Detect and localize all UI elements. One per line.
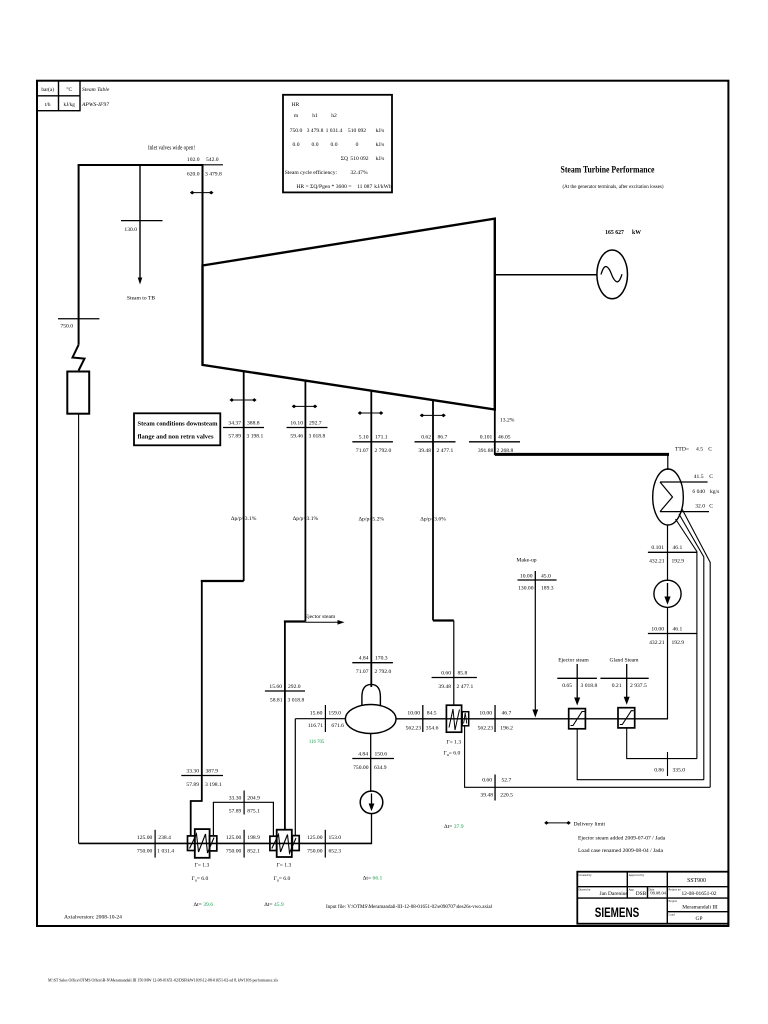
delivery marker ext3 <box>358 411 384 415</box>
svg-text:ΣQ: ΣQ <box>341 156 348 162</box>
wire: hotwell down to pump <box>667 525 669 581</box>
delivery marker ext2 <box>292 405 318 409</box>
boiler box <box>67 372 89 414</box>
svg-text:2 792.0: 2 792.0 <box>375 669 392 675</box>
svg-text:750.00: 750.00 <box>137 848 153 854</box>
wire: ext1 down to HP1 <box>201 581 203 802</box>
svg-text:Δp/p=3.6%: Δp/p=3.6% <box>420 517 446 523</box>
boiler break squiggle <box>73 345 85 371</box>
svg-text:0.0: 0.0 <box>331 142 338 148</box>
svg-text:Jan Darenius: Jan Darenius <box>600 891 628 897</box>
node: HP1 drain labels <box>243 791 245 815</box>
svg-text:Steam to TB: Steam to TB <box>127 296 155 302</box>
node: deaerator steam labels on ext2 drop <box>265 690 305 692</box>
svg-text:APWS-IF97: APWS-IF97 <box>81 102 109 108</box>
svg-text:750.00: 750.00 <box>307 848 323 854</box>
svg-text:Inlet valves wide open!: Inlet valves wide open! <box>148 146 195 152</box>
svg-text:kJ/kWh: kJ/kWh <box>374 184 392 190</box>
page border frame <box>37 81 728 926</box>
svg-text:750.0: 750.0 <box>290 128 303 134</box>
svg-text:0.60: 0.60 <box>482 777 492 783</box>
svg-text:C: C <box>709 504 713 510</box>
svg-text:542.0: 542.0 <box>206 157 219 163</box>
svg-text:3 018.8: 3 018.8 <box>581 683 598 689</box>
svg-text:130.0: 130.0 <box>124 227 137 233</box>
svg-text:671.6: 671.6 <box>331 723 344 729</box>
deaerator dome <box>362 684 381 705</box>
delivery marker ext1 <box>230 398 257 402</box>
svg-text:kJ/s: kJ/s <box>376 142 385 148</box>
svg-text:Steam cycle efficiency:: Steam cycle efficiency: <box>285 169 338 176</box>
svg-text:Δt= 39.6: Δt= 39.6 <box>194 902 214 908</box>
svg-text:Axialversion: 2008-10-24: Axialversion: 2008-10-24 <box>64 915 122 921</box>
gland steam condenser E2 <box>618 708 635 728</box>
svg-text:750.0: 750.0 <box>60 324 73 330</box>
svg-text:562.23: 562.23 <box>406 726 422 732</box>
svg-text:125.00: 125.00 <box>226 835 242 841</box>
svg-text:189.3: 189.3 <box>541 586 554 592</box>
svg-text:Created by: Created by <box>579 873 593 877</box>
svg-text:39.48: 39.48 <box>480 793 493 799</box>
svg-text:192.9: 192.9 <box>672 559 685 565</box>
svg-text:46.1: 46.1 <box>673 626 683 632</box>
svg-text:m: m <box>294 113 299 119</box>
node: deaerator inlet labels <box>352 662 393 664</box>
node: ext2 flange labels <box>287 427 328 429</box>
svg-text:3 198.1: 3 198.1 <box>247 434 264 440</box>
svg-text:159.0: 159.0 <box>328 711 341 717</box>
svg-text:432.21: 432.21 <box>649 559 665 565</box>
svg-text:kJ/kg: kJ/kg <box>63 102 75 108</box>
LP heater H4 <box>446 705 461 732</box>
svg-text:4.5: 4.5 <box>696 447 703 453</box>
svg-text:510 092: 510 092 <box>348 128 366 134</box>
svg-text:2 937.5: 2 937.5 <box>630 683 647 689</box>
wire: feedwater line <box>79 842 373 844</box>
wire: exhaust duct to condenser (thick) <box>495 453 669 456</box>
wire: extraction 2 from turbine <box>304 381 306 622</box>
svg-text:kW: kW <box>632 230 641 236</box>
svg-text:1 031.4: 1 031.4 <box>326 128 343 134</box>
svg-text:3 479.8: 3 479.8 <box>205 172 222 178</box>
node: LP heater steam labels <box>432 677 477 679</box>
condenser cooling water tubes <box>660 481 708 483</box>
svg-text:App.: App. <box>629 888 635 892</box>
svg-text:192.9: 192.9 <box>672 640 685 646</box>
svg-text:852.1: 852.1 <box>247 848 260 854</box>
svg-text:84.5: 84.5 <box>427 710 437 716</box>
delivery limit marker on main steam <box>190 191 214 195</box>
svg-text:238.4: 238.4 <box>158 835 171 841</box>
svg-text:59.46: 59.46 <box>290 434 303 440</box>
svg-text:13.2%: 13.2% <box>500 418 515 424</box>
ejector condenser E1 <box>569 709 586 729</box>
svg-text:3 479.8: 3 479.8 <box>307 128 324 134</box>
svg-text:Load: Load <box>669 912 676 916</box>
svg-text:Gland Steam: Gland Steam <box>609 658 639 664</box>
svg-text:DSB: DSB <box>636 891 647 897</box>
condensate return risers to condenser <box>676 519 697 759</box>
svg-text:Make-up: Make-up <box>516 558 536 564</box>
svg-text:3 018.8: 3 018.8 <box>309 434 326 440</box>
title block <box>577 872 728 924</box>
svg-text:196.2: 196.2 <box>500 726 513 732</box>
wire: generator shaft <box>495 274 597 276</box>
svg-text:165 627: 165 627 <box>605 230 624 236</box>
HP heater H1 <box>188 836 195 851</box>
svg-text:204.9: 204.9 <box>247 795 260 801</box>
svg-text:125.00: 125.00 <box>137 835 153 841</box>
svg-text:Ejector steam added 2009-07-07: Ejector steam added 2009-07-07 / Jada <box>578 836 666 842</box>
svg-text:15.60: 15.60 <box>269 684 282 690</box>
wire: pump discharge down <box>667 607 669 719</box>
turbine body <box>203 219 495 410</box>
svg-text:198.9: 198.9 <box>247 835 260 841</box>
svg-text:C: C <box>709 474 713 480</box>
svg-text:Load case renamed 2009-08-04 /: Load case renamed 2009-08-04 / Jada <box>578 848 663 854</box>
node: feedwater labels before HP2 <box>324 830 326 858</box>
svg-text:41.5: 41.5 <box>694 474 704 480</box>
wire: main condensate line <box>396 718 668 720</box>
svg-text:0.0: 0.0 <box>293 142 300 148</box>
svg-text:11 087: 11 087 <box>357 184 372 190</box>
svg-text:Project no: Project no <box>669 888 682 892</box>
svg-text:flange and non retrn valves: flange and non retrn valves <box>138 435 215 441</box>
svg-text:M:\ST Sales Office\OTMS Offers: M:\ST Sales Office\OTMS Offers\B-N\Meram… <box>48 978 278 984</box>
wire: ejector condenser drain <box>577 729 704 780</box>
svg-text:388.8: 388.8 <box>247 420 260 426</box>
svg-text:kg/s: kg/s <box>710 489 719 495</box>
svg-text:Δp/p=5.2%: Δp/p=5.2% <box>359 517 385 523</box>
svg-text:335.0: 335.0 <box>673 768 686 774</box>
svg-text:71.07: 71.07 <box>356 669 369 675</box>
legend: delivery limit <box>544 821 571 825</box>
svg-text:71.07: 71.07 <box>356 448 369 454</box>
wire: ejector steam takeoff arrow <box>305 621 340 623</box>
node: ext1 flange labels <box>223 427 264 429</box>
svg-text:Delivery limit: Delivery limit <box>574 821 606 827</box>
wire: LP heater drain <box>465 726 711 788</box>
svg-text:SST900: SST900 <box>687 878 706 884</box>
svg-text:2 792.0: 2 792.0 <box>375 448 392 454</box>
svg-text:220.5: 220.5 <box>500 793 513 799</box>
svg-text:10.00: 10.00 <box>651 626 664 632</box>
svg-text:h1: h1 <box>312 113 318 119</box>
svg-text:125.00: 125.00 <box>307 835 323 841</box>
svg-text:1 031.4: 1 031.4 <box>157 848 174 854</box>
svg-text:10.00: 10.00 <box>407 710 420 716</box>
svg-text:57.89: 57.89 <box>229 808 242 814</box>
wire: ext2 jog <box>284 620 306 622</box>
feedwater pump P2 <box>360 791 383 814</box>
svg-text:102.0: 102.0 <box>187 157 200 163</box>
wire: ext4 jog <box>433 619 454 621</box>
condenser <box>653 469 684 525</box>
svg-text:HR = ΣQ/Pgen * 3600 =: HR = ΣQ/Pgen * 3600 = <box>296 184 351 190</box>
svg-text:Δt= 66.1: Δt= 66.1 <box>363 876 383 882</box>
svg-text:10.00: 10.00 <box>479 710 492 716</box>
svg-text:Γu= 6.0: Γu= 6.0 <box>274 876 291 883</box>
wire: extraction 4 from turbine <box>432 400 434 620</box>
svg-text:45.0: 45.0 <box>541 573 551 579</box>
svg-text:kJ/s: kJ/s <box>376 128 385 134</box>
svg-text:34.37: 34.37 <box>228 420 241 426</box>
svg-text:0.65: 0.65 <box>562 683 572 689</box>
wire: ext1 jog <box>201 580 244 582</box>
note box: steam conditions <box>134 413 220 445</box>
wire: deaerator outlet down to feed pump <box>370 734 372 793</box>
svg-text:153.0: 153.0 <box>329 835 342 841</box>
svg-text:Meramandali III: Meramandali III <box>682 905 718 911</box>
node: condensate labels after pump <box>648 633 697 635</box>
svg-text:292.0: 292.0 <box>288 684 301 690</box>
node: deaerator drain-inlet labels <box>324 705 326 732</box>
svg-text:0.62: 0.62 <box>421 435 431 441</box>
wire: HP drains into deaerator <box>295 718 346 720</box>
wire: HP1 drain to HP2 <box>213 802 273 836</box>
node: ext1 at heater labels <box>181 775 223 777</box>
svg-text:Δt= 37.9: Δt= 37.9 <box>444 824 464 830</box>
svg-text:Project: Project <box>669 899 678 903</box>
svg-text:634.9: 634.9 <box>374 765 387 771</box>
svg-text:TTD=: TTD= <box>675 447 689 453</box>
svg-text:Steam conditions downsteam: Steam conditions downsteam <box>138 422 218 428</box>
svg-text:10.00: 10.00 <box>520 573 533 579</box>
svg-text:3 198.1: 3 198.1 <box>205 782 222 788</box>
node: gland drain labels <box>667 752 669 776</box>
node: deaerator feed labels <box>422 705 424 732</box>
svg-text:387.9: 387.9 <box>206 768 219 774</box>
svg-text:32.0: 32.0 <box>695 504 705 510</box>
svg-text:Ejector steam: Ejector steam <box>305 614 336 620</box>
HR heat-rate table <box>283 95 392 193</box>
wire: HP2 drain riser to deaerator line <box>294 719 296 836</box>
svg-text:Δp/p=3.1%: Δp/p=3.1% <box>231 516 257 522</box>
svg-text:130.00: 130.00 <box>518 586 534 592</box>
svg-text:171.1: 171.1 <box>375 435 388 441</box>
deaerator vessel <box>345 705 396 734</box>
svg-text:C: C <box>708 447 712 453</box>
wire: main steam header horizontal <box>78 164 203 166</box>
svg-text:39.48: 39.48 <box>418 448 431 454</box>
wire: turbine exhaust down <box>494 410 496 456</box>
wire: feed pump discharge to feedwater line <box>371 813 373 843</box>
svg-text:875.1: 875.1 <box>247 808 260 814</box>
wire: extraction 1 from turbine <box>243 371 245 581</box>
svg-text:292.7: 292.7 <box>309 420 322 426</box>
svg-text:Steam Table: Steam Table <box>82 87 110 93</box>
node: deaerator outlet labels <box>352 758 394 760</box>
svg-text:Γ= 1.3: Γ= 1.3 <box>195 863 210 869</box>
units legend table <box>37 81 110 111</box>
svg-text:150.6: 150.6 <box>375 751 388 757</box>
svg-text:652.3: 652.3 <box>329 848 342 854</box>
svg-text:750.00: 750.00 <box>226 848 242 854</box>
node: LP heater outlet labels <box>494 705 496 732</box>
svg-text:170.3: 170.3 <box>375 656 388 662</box>
svg-text:0.21: 0.21 <box>612 683 622 689</box>
svg-text:0.60: 0.60 <box>441 670 451 676</box>
svg-text:GP: GP <box>696 916 703 922</box>
svg-text:2 477.1: 2 477.1 <box>437 448 454 454</box>
wire: ext4 down to LP heater <box>453 621 455 706</box>
svg-text:116 705: 116 705 <box>309 740 325 745</box>
svg-text:86.7: 86.7 <box>438 435 448 441</box>
svg-text:85.8: 85.8 <box>458 670 468 676</box>
node: ext4 flange labels <box>415 441 456 443</box>
svg-text:32.47%: 32.47% <box>350 170 368 176</box>
svg-text:Δp/p=3.1%: Δp/p=3.1% <box>293 516 319 522</box>
svg-text:39.48: 39.48 <box>438 684 451 690</box>
svg-text:SIEMENS: SIEMENS <box>595 905 640 920</box>
HP heater H2 <box>270 836 277 850</box>
wire: gland condenser drain <box>627 728 697 759</box>
svg-text:4.84: 4.84 <box>359 656 369 662</box>
svg-text:Δt= 45.9: Δt= 45.9 <box>264 902 284 908</box>
svg-text:2 477.1: 2 477.1 <box>457 684 474 690</box>
svg-text:510 092: 510 092 <box>350 156 368 162</box>
node: ext3 flange labels <box>352 441 393 443</box>
svg-text:(At the generator terminals, a: (At the generator terminals, after excit… <box>563 183 664 190</box>
svg-text:Steam Turbine Performance: Steam Turbine Performance <box>561 164 655 174</box>
svg-text:116.71: 116.71 <box>308 723 323 729</box>
svg-text:33.30: 33.30 <box>186 768 199 774</box>
wire: boiler downcomer (feedwater to boiler) <box>78 414 80 844</box>
node: LP drain labels <box>494 775 496 801</box>
svg-text:Input file: V:\OTMS\Meramandal: Input file: V:\OTMS\Meramandali-III-12-0… <box>326 905 493 910</box>
svg-text:5.10: 5.10 <box>359 435 369 441</box>
svg-text:t/h: t/h <box>45 102 51 108</box>
wire: steam to TB branch <box>139 165 141 280</box>
svg-text:6 040: 6 040 <box>692 489 705 495</box>
wire: boiler riser (main steam up) <box>78 165 80 345</box>
node: live steam label 750.0 <box>58 318 99 320</box>
svg-text:750.00: 750.00 <box>353 765 369 771</box>
svg-text:3 018.8: 3 018.8 <box>288 697 305 703</box>
svg-text:°C: °C <box>66 86 72 93</box>
generator G1 <box>597 250 628 299</box>
svg-text:0.101: 0.101 <box>480 435 493 441</box>
svg-text:HR: HR <box>292 102 300 108</box>
wire: ext2 down to HP2 <box>284 622 286 830</box>
svg-text:12-08-01651-02: 12-08-01651-02 <box>681 891 716 897</box>
svg-text:354.6: 354.6 <box>426 726 439 732</box>
wire: ext1 into HP1 nozzle <box>191 801 202 837</box>
svg-text:46.1: 46.1 <box>673 545 683 551</box>
svg-text:391.88: 391.88 <box>478 448 494 454</box>
svg-text:Γu= 6.0: Γu= 6.0 <box>192 876 209 883</box>
wire: extraction 3 from turbine to deaerator <box>370 391 372 687</box>
svg-text:Ejector steam: Ejector steam <box>558 658 589 664</box>
svg-text:16.10: 16.10 <box>290 420 303 426</box>
svg-text:Drawn by: Drawn by <box>579 888 591 892</box>
svg-text:0: 0 <box>356 142 359 148</box>
svg-text:57.89: 57.89 <box>186 782 199 788</box>
svg-text:Γ= 1.3: Γ= 1.3 <box>446 739 461 745</box>
svg-text:52.7: 52.7 <box>502 777 512 783</box>
svg-text:h2: h2 <box>331 113 337 119</box>
node: condensate labels before pump <box>648 551 697 553</box>
svg-text:0.86: 0.86 <box>654 768 664 774</box>
svg-text:bar(a): bar(a) <box>41 86 54 93</box>
wire: main steam down to turbine <box>202 164 204 266</box>
svg-text:33.30: 33.30 <box>229 795 242 801</box>
svg-text:0.0: 0.0 <box>312 142 319 148</box>
svg-text:15.60: 15.60 <box>310 711 323 717</box>
svg-text:kJ/s: kJ/s <box>376 156 385 162</box>
delivery marker ext4 <box>420 414 446 418</box>
svg-text:Approved by: Approved by <box>629 873 645 877</box>
svg-text:46.7: 46.7 <box>502 710 512 716</box>
svg-text:'09.08.04: '09.08.04 <box>650 891 667 896</box>
svg-text:620.0: 620.0 <box>187 172 200 178</box>
condensate pump <box>654 580 681 607</box>
node: exhaust labels <box>469 441 520 443</box>
svg-text:46.05: 46.05 <box>498 435 511 441</box>
svg-text:Γ= 1.3: Γ= 1.3 <box>277 863 292 869</box>
node: feedwater labels between heaters <box>243 830 245 858</box>
svg-text:57.89: 57.89 <box>228 434 241 440</box>
svg-text:Γu= 6.0: Γu= 6.0 <box>444 751 461 758</box>
svg-text:58.81: 58.81 <box>270 697 283 703</box>
node: feedwater labels after HP1 <box>154 830 156 858</box>
svg-text:432.21: 432.21 <box>649 640 665 646</box>
svg-text:0.101: 0.101 <box>651 545 664 551</box>
svg-text:562.23: 562.23 <box>478 726 494 732</box>
svg-text:4.84: 4.84 <box>358 751 368 757</box>
